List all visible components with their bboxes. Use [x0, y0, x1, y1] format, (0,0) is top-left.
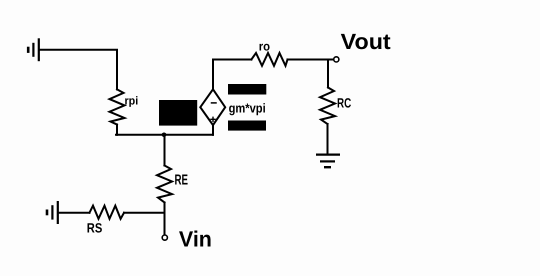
svg-text:rpi: rpi	[125, 96, 139, 108]
svg-text:Vin: Vin	[179, 227, 212, 252]
svg-text:gm*vpi: gm*vpi	[229, 100, 266, 115]
svg-text:ro: ro	[259, 40, 271, 54]
svg-text:Vout: Vout	[341, 29, 392, 54]
svg-text:RS: RS	[87, 221, 103, 236]
svg-text:RE: RE	[175, 173, 189, 189]
svg-text:RC: RC	[337, 96, 351, 111]
